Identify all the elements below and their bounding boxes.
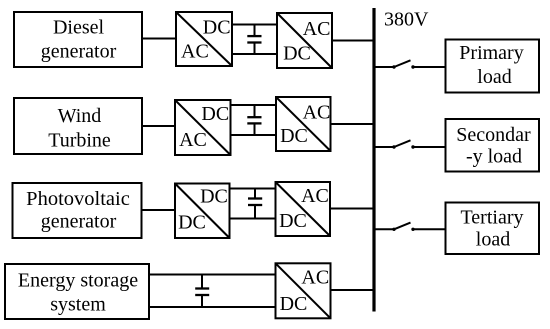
wire: DC link bottom rail (PV row) (230, 218, 275, 220)
capacitor C1 (DC link, diesel row) (247, 25, 261, 55)
capacitor C3 (DC link, PV row) (248, 189, 262, 219)
wire: DC link top rail (wind row) (231, 104, 276, 106)
capacitor C2 (DC link, wind row) (247, 105, 261, 135)
source box: Energy storage system (5, 264, 149, 319)
svg-text:DC: DC (201, 103, 229, 125)
svg-text:AC: AC (301, 266, 329, 288)
wire: bus to switch S3 (375, 228, 394, 230)
wire: diesel generator to converter U1 (142, 38, 176, 40)
svg-text:380V: 380V (384, 9, 429, 31)
converter U1 (AC/DC rectifier, diesel row) (176, 12, 232, 66)
wire: DC link bottom rail (wind row) (231, 134, 276, 136)
wire: switch S2 to secondary load (413, 146, 446, 148)
svg-text:AC: AC (181, 41, 209, 63)
load box: Primary load (446, 40, 540, 93)
svg-text:DC: DC (280, 293, 308, 315)
load box: Secondary load (446, 119, 540, 172)
load box: Tertiary load (446, 203, 540, 255)
svg-text:system: system (50, 293, 106, 315)
svg-text:DC: DC (279, 210, 307, 232)
source box: Wind Turbine (14, 98, 142, 154)
wire: DC link bottom rail (diesel row) (232, 53, 277, 55)
svg-text:DC: DC (280, 125, 308, 147)
AC bus bar (380V bus) (372, 8, 375, 312)
source box: Diesel generator (14, 12, 142, 67)
svg-text:AC: AC (303, 18, 331, 40)
svg-text:load: load (477, 66, 511, 88)
wire: inverter U6 to AC bus (330, 208, 376, 210)
switch S1 (392, 60, 414, 68)
svg-text:Primary: Primary (459, 42, 523, 64)
svg-text:Wind: Wind (58, 105, 102, 127)
svg-text:DC: DC (283, 42, 311, 64)
wire: inverter U4 to AC bus (331, 123, 376, 125)
svg-text:generator: generator (41, 40, 117, 62)
wire: photovoltaic generator to converter U5 (142, 209, 174, 211)
converter U6 (DC/AC inverter, PV row) (276, 182, 331, 236)
wire: DC link top rail (PV row) (230, 188, 275, 190)
wire: bus to switch S2 (375, 146, 394, 148)
switch S2 (392, 140, 414, 148)
svg-text:AC: AC (301, 185, 329, 207)
svg-text:generator: generator (41, 211, 117, 233)
converter U3 (AC/DC rectifier, wind row) (175, 100, 231, 155)
svg-text:Tertiary: Tertiary (460, 207, 523, 229)
svg-text:Turbine: Turbine (48, 129, 111, 151)
svg-text:load: load (476, 229, 510, 251)
wire: bus to switch S1 (375, 66, 394, 68)
wire: inverter U7 to AC bus (331, 289, 376, 291)
svg-text:Energy storage: Energy storage (18, 270, 138, 292)
converter U4 (DC/AC inverter, wind row) (276, 97, 331, 151)
svg-text:Secondar: Secondar (456, 124, 531, 146)
wire: switch S1 to primary load (413, 66, 446, 68)
converter U2 (DC/AC inverter, diesel row) (277, 13, 332, 68)
wire: DC link top rail (diesel row) (232, 24, 277, 26)
converter U5 (DC/DC converter, PV row) (175, 184, 230, 239)
wire: switch S3 to tertiary load (413, 228, 446, 230)
svg-text:DC: DC (200, 185, 228, 207)
wire: storage bottom rail (149, 306, 275, 308)
wire: storage top rail (149, 274, 275, 276)
svg-text:AC: AC (303, 102, 331, 124)
converter U7 (DC/AC inverter, storage row) (276, 263, 331, 318)
svg-text:DC: DC (203, 16, 231, 38)
svg-text:-y load: -y load (466, 146, 522, 168)
capacitor C4 (storage DC link) (195, 275, 209, 308)
wire: inverter U2 to AC bus (332, 40, 376, 42)
svg-text:Photovoltaic: Photovoltaic (26, 188, 130, 210)
source box: Photovoltaic generator (13, 183, 142, 238)
wire: wind turbine to converter U3 (142, 125, 175, 127)
svg-text:Diesel: Diesel (53, 17, 105, 39)
svg-text:DC: DC (178, 212, 206, 234)
svg-text:AC: AC (179, 129, 207, 151)
switch S3 (392, 223, 414, 231)
